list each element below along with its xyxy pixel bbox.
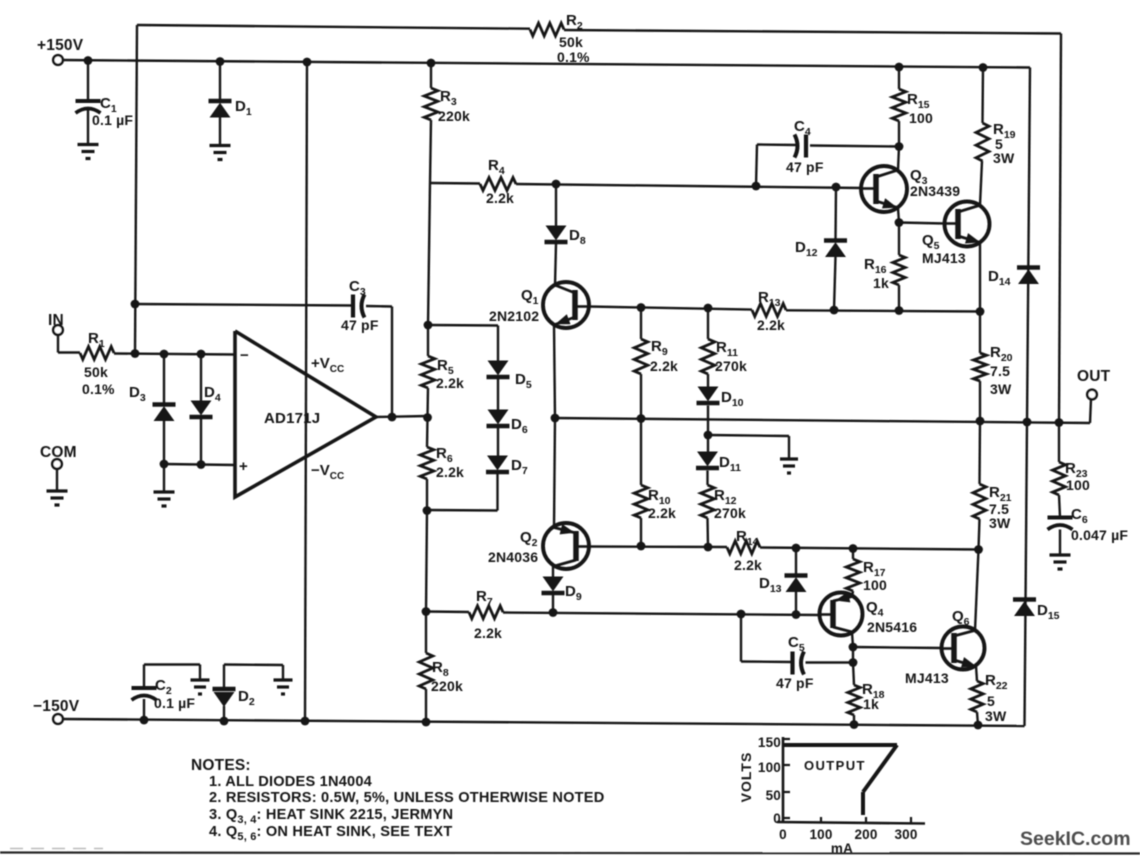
- svg-text:2N4036: 2N4036: [488, 549, 538, 565]
- svg-text:OUTPUT: OUTPUT: [804, 758, 866, 773]
- svg-text:1k: 1k: [863, 696, 879, 712]
- svg-text:MJ413: MJ413: [905, 670, 949, 686]
- svg-text:−150V: −150V: [33, 698, 80, 715]
- svg-text:47 pF: 47 pF: [776, 675, 814, 691]
- svg-text:220k: 220k: [438, 108, 470, 124]
- svg-text:150: 150: [758, 735, 781, 750]
- svg-text:−: −: [240, 347, 249, 364]
- svg-text:5: 5: [987, 693, 995, 709]
- svg-text:100: 100: [909, 110, 933, 126]
- svg-text:IN: IN: [48, 312, 64, 329]
- svg-text:MJ413: MJ413: [922, 250, 966, 266]
- svg-text:1k: 1k: [873, 275, 889, 291]
- svg-text:47 pF: 47 pF: [341, 317, 379, 333]
- svg-text:3W: 3W: [985, 708, 1007, 724]
- svg-text:100: 100: [1066, 477, 1090, 493]
- svg-text:2.2k: 2.2k: [436, 464, 464, 480]
- svg-text:50: 50: [766, 788, 781, 803]
- svg-text:50k: 50k: [559, 34, 583, 50]
- svg-text:SeekIC.com: SeekIC.com: [1020, 828, 1131, 850]
- svg-text:7.5: 7.5: [990, 363, 1010, 379]
- svg-text:100: 100: [758, 760, 781, 775]
- svg-text:2.2k: 2.2k: [474, 625, 502, 641]
- svg-text:COM: COM: [40, 444, 77, 461]
- svg-text:2N3439: 2N3439: [910, 183, 960, 199]
- svg-text:2.2k: 2.2k: [650, 358, 678, 374]
- svg-text:270k: 270k: [714, 505, 746, 521]
- svg-text:270k: 270k: [715, 358, 747, 374]
- svg-text:0.1%: 0.1%: [557, 49, 590, 65]
- svg-text:220k: 220k: [431, 678, 463, 694]
- svg-text:2N5416: 2N5416: [867, 619, 917, 635]
- svg-text:0.1 µF: 0.1 µF: [92, 112, 133, 128]
- svg-text:AD171J: AD171J: [264, 410, 320, 427]
- svg-text:2. RESISTORS: 0.5W, 5%, UNLESS: 2. RESISTORS: 0.5W, 5%, UNLESS OTHERWISE…: [209, 790, 604, 806]
- svg-text:+: +: [239, 458, 248, 475]
- svg-text:0: 0: [773, 811, 781, 826]
- svg-text:100: 100: [863, 577, 887, 593]
- svg-text:200: 200: [854, 827, 877, 842]
- svg-text:300: 300: [894, 827, 917, 842]
- svg-text:+150V: +150V: [37, 37, 84, 54]
- svg-text:3W: 3W: [989, 515, 1011, 531]
- svg-text:2.2k: 2.2k: [734, 557, 762, 573]
- svg-text:0.047 µF: 0.047 µF: [1071, 527, 1128, 543]
- svg-text:3W: 3W: [990, 381, 1012, 397]
- svg-text:47 pF: 47 pF: [786, 159, 824, 175]
- svg-text:50k: 50k: [84, 364, 108, 380]
- svg-text:2.2k: 2.2k: [648, 505, 676, 521]
- svg-text:1. ALL DIODES 1N4004: 1. ALL DIODES 1N4004: [209, 774, 373, 790]
- svg-text:2.2k: 2.2k: [757, 317, 785, 333]
- svg-text:2N2102: 2N2102: [489, 308, 539, 324]
- svg-text:0.1%: 0.1%: [82, 381, 115, 397]
- svg-text:VOLTS: VOLTS: [738, 752, 754, 803]
- svg-text:2.2k: 2.2k: [436, 375, 464, 391]
- svg-text:3W: 3W: [993, 150, 1015, 166]
- svg-text:OUT: OUT: [1077, 368, 1111, 385]
- svg-text:0: 0: [779, 827, 787, 842]
- svg-text:NOTES:: NOTES:: [191, 757, 251, 774]
- svg-text:2.2k: 2.2k: [486, 190, 514, 206]
- svg-text:100: 100: [809, 827, 832, 842]
- svg-text:0.1 µF: 0.1 µF: [154, 695, 195, 711]
